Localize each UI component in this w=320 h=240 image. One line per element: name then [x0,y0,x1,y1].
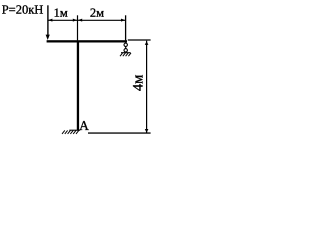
dimension arrow right end [121,19,125,22]
extension line at beam right end [125,15,127,40]
column (vertical member) [77,42,79,131]
svg-text:P=20кН: P=20кН [2,3,44,17]
roller ground hatching [120,53,131,56]
svg-text:1м: 1м [54,6,68,20]
vertical dimension line 4m [146,41,148,133]
dimension arrow left of 2m segment [78,19,82,22]
4m dimension top arrow [145,41,149,45]
4m dimension bottom arrow [145,129,149,133]
top reference line to 4m dimension [128,39,151,41]
svg-text:4м: 4м [131,75,147,91]
dimension arrow left at force line [48,19,52,22]
svg-text:А: А [79,118,89,133]
fixed support ground line at A [69,129,80,131]
dimension arrow right of 1m segment [73,19,77,22]
force P arrowhead [46,35,50,40]
beam (horizontal member) [47,40,127,42]
dimension line 1m-2m [48,19,126,21]
roller support hinge circle [124,43,127,46]
force P line of action [47,5,49,36]
fixed support hatching at A [62,130,79,134]
roller support wheel circle [124,49,127,52]
bottom reference line [88,132,151,133]
roller ground line [121,52,131,54]
roller support link [125,46,127,48]
svg-text:2м: 2м [90,6,104,20]
extension line at column [77,15,79,40]
